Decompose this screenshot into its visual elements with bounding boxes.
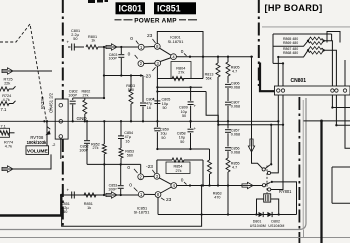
CN451 pin 2 <box>59 120 63 124</box>
wire feedback riser B <box>202 160 204 186</box>
board boundary dash-dot line right lower <box>298 97 300 243</box>
wire stub 1 <box>332 95 350 108</box>
wire input A <box>13 70 52 72</box>
speaker arrow A <box>248 139 254 152</box>
board boundary dash-dot line right upper <box>258 0 260 86</box>
svg-text:56k: 56k <box>206 77 212 81</box>
svg-text:RVT08: RVT08 <box>40 96 45 109</box>
resistor R774 <box>0 131 9 135</box>
wire y91 <box>157 91 206 93</box>
wire bottom B <box>158 214 297 216</box>
svg-text:100k/103k: 100k/103k <box>27 140 47 145</box>
op-amp IC851 pin 1 <box>138 191 144 197</box>
signal arrow input A <box>2 68 13 74</box>
op-amp IC851 pin 2 <box>138 174 144 180</box>
svg-text:0.068: 0.068 <box>231 133 240 137</box>
capacitor C805 <box>154 100 160 102</box>
wire bias bar B <box>87 163 141 165</box>
svg-text:0: 0 <box>130 36 133 42</box>
svg-text:+: + <box>194 126 197 131</box>
HP resistor network frame <box>273 33 332 35</box>
capacitor C803 <box>120 47 122 54</box>
IC801 title block <box>116 2 146 14</box>
wire input riser A <box>103 47 105 98</box>
wire coil right <box>271 199 279 215</box>
CN801 pin <box>281 89 284 92</box>
wire network left <box>273 41 308 47</box>
capacitor C857 <box>227 121 229 128</box>
svg-text:50: 50 <box>63 210 67 214</box>
wire stub 3 <box>345 95 350 148</box>
svg-text:7.1: 7.1 <box>1 107 7 112</box>
svg-text:50: 50 <box>182 114 186 118</box>
svg-text:+: + <box>67 187 70 192</box>
capacitor C807 <box>227 88 229 101</box>
VOLUME label box <box>26 146 49 155</box>
svg-text:4.7k: 4.7k <box>5 144 12 148</box>
op-amp IC801 internal wires <box>144 46 154 49</box>
svg-text:-2: -2 <box>52 142 56 147</box>
wire CN801 pin2 down <box>271 95 283 190</box>
wire coil left <box>257 199 264 215</box>
wire y87 <box>157 86 202 88</box>
svg-text:100P: 100P <box>109 57 118 61</box>
svg-text:0: 0 <box>181 49 184 55</box>
signal arrow volume <box>2 166 13 172</box>
wire pin2 riser B <box>140 164 142 174</box>
svg-text:0.068: 0.068 <box>231 105 240 109</box>
CN801 pin <box>343 89 346 92</box>
svg-text:100P: 100P <box>68 93 77 97</box>
connector CN451 body <box>55 99 68 139</box>
board outline gray right inner <box>302 100 304 229</box>
capacitor C856 <box>227 133 229 146</box>
svg-text:0.068: 0.068 <box>231 151 240 155</box>
diode D802 <box>267 212 272 217</box>
resistor pair upper <box>307 40 309 42</box>
bold wire to CN801 <box>260 63 275 92</box>
capacitor C804 <box>142 76 144 103</box>
wire HP jog <box>206 92 283 125</box>
wire input riser B <box>103 164 105 195</box>
svg-text:23: 23 <box>166 197 172 203</box>
wire <box>74 46 84 48</box>
svg-text:50: 50 <box>73 37 77 41</box>
svg-text:[HP BOARD]: [HP BOARD] <box>265 3 323 13</box>
HP jumper box <box>327 32 340 43</box>
CN451 pin 1 <box>59 103 63 107</box>
rail junction <box>43 120 45 122</box>
wire HP feed riser <box>270 125 272 165</box>
IC851 title block <box>154 2 196 14</box>
svg-text:50: 50 <box>161 136 165 140</box>
wire network to pin <box>277 57 279 86</box>
op-amp IC851 pin 8 <box>155 192 161 198</box>
wire left resistors <box>9 86 16 89</box>
svg-text:SI-18751: SI-18751 <box>168 39 184 44</box>
resistor R855 <box>227 151 229 158</box>
board boundary dash-dot line left lower <box>62 139 64 228</box>
board outline gray right and bottom curve <box>0 98 306 230</box>
svg-text:US1040M: US1040M <box>250 224 266 228</box>
svg-text:50: 50 <box>163 106 167 110</box>
resistor R854 feedback <box>156 160 158 173</box>
CN801 pin <box>335 89 338 92</box>
CN801 pin <box>277 89 280 92</box>
svg-text:560: 560 <box>128 88 134 92</box>
relay mechanical link <box>266 166 268 194</box>
wire feedback riser A <box>202 57 204 79</box>
svg-text:7.1: 7.1 <box>1 124 6 128</box>
resistor R725 <box>0 87 9 91</box>
svg-text:R869 480: R869 480 <box>283 41 298 45</box>
op-amp IC851 internal wires <box>144 175 154 177</box>
capacitor C809 <box>190 87 192 101</box>
wire pin8 riser B <box>157 197 159 214</box>
svg-text:SI-18751: SI-18751 <box>134 210 150 215</box>
svg-text:16: 16 <box>147 106 151 110</box>
svg-text:IC801: IC801 <box>119 4 143 14</box>
svg-text:23: 23 <box>147 33 153 39</box>
thick signal wire <box>0 195 61 216</box>
svg-text:4.7k: 4.7k <box>3 98 10 102</box>
ground rail wire <box>0 120 278 122</box>
left cut box <box>0 128 10 137</box>
relay contact A NO <box>262 168 265 171</box>
HP board box right <box>332 167 350 203</box>
coupling arrowhead into RVT08 <box>48 127 51 129</box>
svg-text:R868 480: R868 480 <box>283 51 298 55</box>
wire CN801 pin1 down <box>271 95 279 173</box>
resistor R801 <box>86 45 98 49</box>
board outline gray stub <box>303 230 305 238</box>
resistor R863 <box>209 149 211 160</box>
wire mid rail B <box>157 148 209 150</box>
svg-text:-23: -23 <box>146 164 153 170</box>
op-amp IC801 pin 3 <box>155 60 161 66</box>
IC801 label box <box>157 32 203 57</box>
resistor pair lower <box>307 49 309 51</box>
svg-text:16: 16 <box>125 139 129 143</box>
capacitor C859 <box>156 121 158 127</box>
volume bottom wire <box>13 154 51 169</box>
wire pin5 up <box>344 60 346 86</box>
resistor R803 <box>130 76 132 91</box>
wire contact B out <box>272 182 297 215</box>
svg-text:0: 0 <box>127 165 130 171</box>
capacitor C853 <box>120 189 122 195</box>
CN451 pin 3 <box>59 135 63 139</box>
svg-text:IC851: IC851 <box>157 4 181 14</box>
capacitor C806 <box>227 76 229 83</box>
svg-text:4.7: 4.7 <box>232 70 237 74</box>
board outline gray bottom line <box>0 237 350 239</box>
wire stub 2 <box>336 95 350 125</box>
capacitor C854 <box>120 121 122 135</box>
wire <box>98 46 138 48</box>
op-amp IC801 pin 4 output <box>171 54 177 60</box>
resistor R852 <box>103 121 105 144</box>
svg-text:27k: 27k <box>93 146 99 150</box>
resistor R804 feedback <box>156 66 158 79</box>
wire bias bar A <box>73 97 104 99</box>
svg-text:1k: 1k <box>91 39 95 43</box>
diode D801 <box>259 212 264 217</box>
resistor R802 <box>84 98 86 100</box>
svg-text:27k: 27k <box>175 169 181 173</box>
capacitor C802 <box>72 98 74 100</box>
relay contact B NO <box>262 184 265 187</box>
signal arrow B <box>106 192 117 198</box>
svg-text:470: 470 <box>214 195 220 199</box>
resistor R813 <box>217 57 219 63</box>
signal arrow A <box>106 44 117 50</box>
op-amp IC801 pin 8 <box>154 44 160 50</box>
wire decouple bar A <box>156 79 158 122</box>
wire R774 to rail <box>9 132 15 134</box>
svg-text:0: 0 <box>181 178 184 184</box>
op-amp IC801 pin 1 <box>138 44 144 50</box>
volume pot wire <box>46 121 48 146</box>
op-amp IC801 pin 2 <box>138 61 144 67</box>
svg-text:VOLUME: VOLUME <box>27 148 49 154</box>
svg-text:22k: 22k <box>4 82 10 86</box>
svg-text:CN801: CN801 <box>291 78 307 84</box>
board boundary dash-dot line left upper <box>62 0 64 99</box>
wire output A <box>176 56 253 58</box>
op-amp IC851 pin 3 <box>154 173 160 179</box>
wire R813 lower <box>217 121 219 185</box>
capacitor C858 <box>190 121 192 128</box>
svg-text:+: + <box>67 39 70 44</box>
resistor R724 <box>0 101 9 105</box>
capacitor C852 <box>86 121 88 140</box>
HP board outline gray top <box>262 26 350 28</box>
svg-text:0: 0 <box>128 52 131 58</box>
capacitor C851 <box>71 192 73 199</box>
relay contact A NC <box>267 171 270 174</box>
svg-text:4.7: 4.7 <box>232 166 237 170</box>
svg-text:50: 50 <box>180 140 184 144</box>
wire input B <box>61 194 138 196</box>
cut-off component marks top edge <box>88 0 95 3</box>
svg-text:100P: 100P <box>79 148 88 152</box>
svg-text:GND: GND <box>77 116 88 121</box>
bold ground line right <box>320 121 322 243</box>
svg-text:0.068: 0.068 <box>231 86 240 90</box>
relay RY801 coil <box>264 194 271 202</box>
resistor R805 <box>227 57 229 62</box>
svg-text:0: 0 <box>129 183 132 189</box>
svg-text:POWER AMP: POWER AMP <box>134 17 177 24</box>
svg-text:+: + <box>194 104 197 109</box>
CN801 pin <box>331 89 334 92</box>
connector CN801 body <box>275 86 350 95</box>
svg-text:560: 560 <box>127 154 133 158</box>
op-amp IC851 pin 4 output <box>171 183 177 189</box>
svg-text:US1040M: US1040M <box>268 224 284 228</box>
wire bottom loop <box>62 186 202 227</box>
relay contact B NC <box>268 188 271 191</box>
mechanical coupling dashed line <box>0 24 48 127</box>
resistor R853 <box>119 148 123 158</box>
wire output A down <box>252 57 263 169</box>
resistor R851 <box>84 193 96 197</box>
wire output B <box>177 185 263 187</box>
wire stub A <box>104 75 143 77</box>
svg-text:100P: 100P <box>108 187 117 191</box>
speaker arrow B <box>242 182 253 188</box>
svg-text:1k: 1k <box>87 206 91 210</box>
svg-text:27k: 27k <box>83 93 89 97</box>
svg-text:27k: 27k <box>178 71 184 75</box>
wire network right lower <box>324 50 337 86</box>
wire stub 4 <box>304 120 350 122</box>
wire network right upper <box>324 41 333 86</box>
capacitor C801 <box>71 44 73 51</box>
svg-text:-23: -23 <box>144 74 151 80</box>
